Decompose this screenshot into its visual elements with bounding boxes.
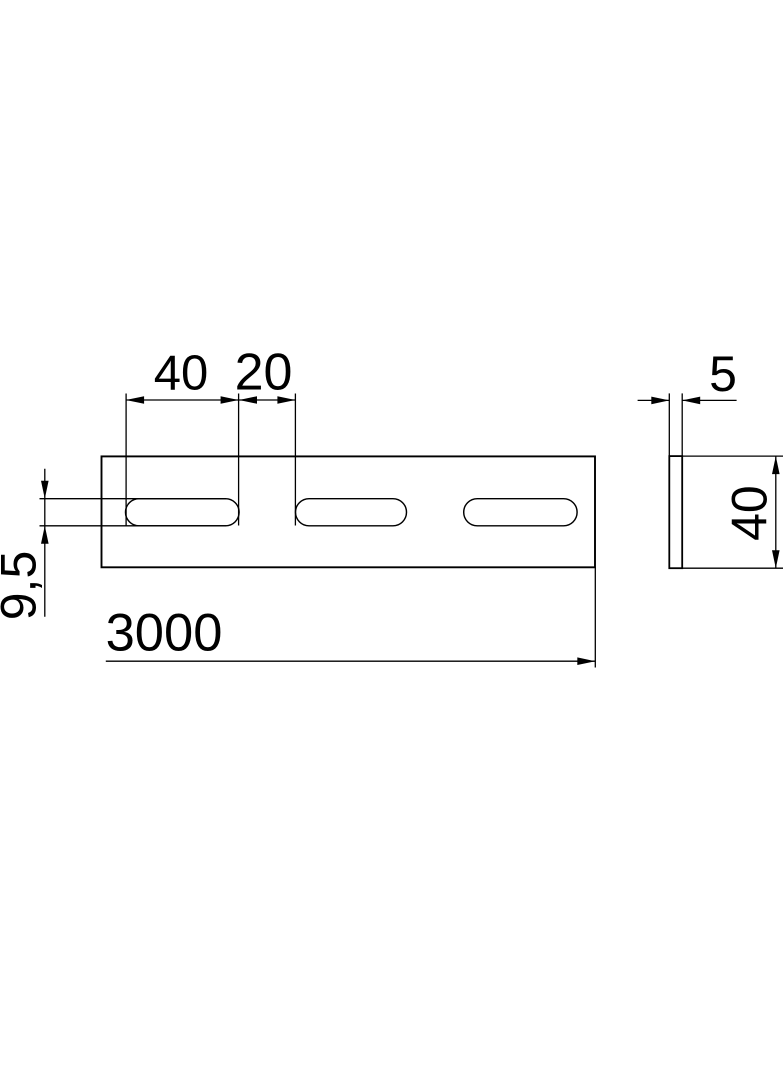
dimension line 40/20: [126, 399, 295, 401]
svg-text:40: 40: [722, 485, 778, 541]
dimension line 5 left part: [638, 399, 670, 401]
arrow 40v down: [772, 550, 780, 568]
extension line side left above: [668, 393, 670, 456]
svg-text:20: 20: [235, 344, 293, 402]
svg-text:5: 5: [709, 346, 737, 402]
arrow 20 right: [277, 396, 295, 404]
dimension line 3000: [106, 660, 596, 662]
slot 2: [296, 499, 407, 526]
dimension line 5 right part: [682, 399, 736, 401]
extension line slot bottom (9,5): [40, 525, 227, 527]
slot 3: [464, 499, 577, 526]
extension line 3000 right: [594, 567, 596, 667]
extension line side bottom (40): [682, 567, 783, 569]
dimension line 9,5: [44, 469, 46, 617]
arrow 5 right: [682, 397, 700, 405]
svg-text:3000: 3000: [106, 604, 223, 663]
arrow 40 left: [126, 396, 144, 404]
slot 1: [126, 499, 240, 526]
svg-text:9,5: 9,5: [0, 551, 47, 621]
dimension line 40 vertical: [775, 456, 777, 568]
arrow 3000 right: [577, 657, 595, 665]
arrow 40 right: [221, 396, 239, 404]
arrow 20 left: [239, 396, 257, 404]
extension line side right above: [681, 393, 683, 456]
front view plate outline: [102, 456, 596, 567]
arrow 5 left: [651, 397, 669, 405]
extension line slot top (9,5): [40, 498, 227, 500]
side view plate outline: [669, 456, 682, 568]
arrow 9,5 down: [41, 481, 49, 499]
arrow 40v up: [772, 456, 780, 474]
extension line slot1 left: [125, 394, 127, 526]
extension line side top (40): [682, 455, 783, 457]
extension line slot2 left: [294, 394, 296, 526]
extension line slot1 right: [238, 394, 240, 526]
arrow 9,5 up: [41, 526, 49, 544]
svg-text:40: 40: [154, 347, 209, 401]
